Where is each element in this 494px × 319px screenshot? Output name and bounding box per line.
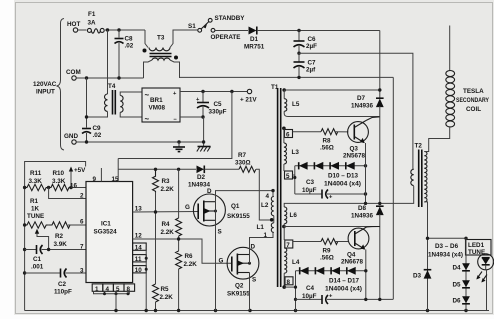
diodes D10-D13 1N4004 (x4) <box>295 162 367 188</box>
svg-text:C4: C4 <box>306 285 315 292</box>
wire L6 bottom to Q4 collector line <box>284 226 380 228</box>
svg-text:R7: R7 <box>238 152 247 159</box>
svg-text:D2: D2 <box>197 174 206 181</box>
svg-text:T2: T2 <box>415 143 423 150</box>
svg-text:8: 8 <box>287 279 291 286</box>
winding L5 <box>282 88 299 111</box>
capacitor C5 330uF <box>196 92 227 118</box>
svg-text:1: 1 <box>264 232 268 239</box>
wire pin13 to Q1 gate <box>133 210 199 213</box>
terminal GND <box>64 133 78 144</box>
svg-text:1N4934 (x4): 1N4934 (x4) <box>428 252 463 259</box>
svg-text:2µf: 2µf <box>306 67 316 74</box>
svg-text:Q1: Q1 <box>231 203 240 210</box>
svg-text:R8: R8 <box>323 138 332 145</box>
svg-text:D: D <box>207 188 212 195</box>
diode D6 <box>453 296 470 304</box>
svg-text:~: ~ <box>145 115 150 124</box>
resistor R9 .56ohm <box>293 239 349 262</box>
svg-text:G: G <box>185 204 190 211</box>
svg-text:S: S <box>252 277 256 284</box>
svg-text:1K: 1K <box>31 206 40 213</box>
wire Q3 emitter vertical <box>365 143 367 203</box>
svg-text:D7: D7 <box>357 95 366 102</box>
terminal COM <box>66 69 81 80</box>
transformer T2 core <box>415 143 423 208</box>
svg-text:S: S <box>218 229 222 236</box>
diode D2 1N4934 <box>188 166 239 189</box>
svg-text:T3: T3 <box>157 35 165 42</box>
svg-text:1N4004 (x4): 1N4004 (x4) <box>325 286 362 293</box>
resistor R3 2.2K <box>153 169 175 212</box>
diode D4 <box>453 238 470 310</box>
svg-text:L4: L4 <box>292 259 300 266</box>
ground chassis symbol <box>197 147 211 152</box>
svg-text:BR1: BR1 <box>150 97 163 104</box>
resistor R5 2.2K <box>153 212 174 311</box>
svg-text:C7: C7 <box>308 60 317 67</box>
wire BR1 - output <box>180 115 205 146</box>
svg-text:D3: D3 <box>413 273 422 280</box>
svg-text:Q4: Q4 <box>347 252 356 259</box>
terminal HOT <box>67 21 80 32</box>
resistor R2 3.9K <box>49 222 86 248</box>
wire GND line <box>76 140 203 143</box>
pin boxes 1 4 5 8 <box>92 284 134 293</box>
svg-text:D5: D5 <box>453 282 462 289</box>
terminal +21V <box>240 89 257 103</box>
transformer T4 <box>85 30 142 119</box>
svg-text:COM: COM <box>66 69 81 76</box>
svg-text:12: 12 <box>135 233 143 240</box>
svg-text:10µF: 10µF <box>302 293 317 300</box>
capacitor C2 110pF <box>25 269 86 296</box>
120VAC INPUT brace <box>33 19 64 151</box>
svg-text:11: 11 <box>135 256 142 263</box>
svg-text:10µF: 10µF <box>302 187 317 194</box>
svg-text:R3: R3 <box>162 178 171 185</box>
svg-text:L5: L5 <box>292 101 300 108</box>
transistor Q1 SK9155 <box>185 188 250 236</box>
diode D3 <box>413 270 431 280</box>
wire bottom pins strap to rail <box>94 291 130 310</box>
node 8 tap <box>284 271 297 311</box>
wire HOT to fuse <box>78 29 87 31</box>
svg-text:R1: R1 <box>30 198 39 205</box>
tesla secondary coil <box>446 26 490 127</box>
resistor R7 330ohm <box>235 152 256 172</box>
switch S1 STANDBY/OPERATE <box>188 15 245 41</box>
svg-text:HOT: HOT <box>67 21 80 28</box>
wire +21V drop to bias row <box>118 92 232 159</box>
resistor R6 2.2K <box>176 239 198 311</box>
svg-text:1N4936: 1N4936 <box>351 213 374 220</box>
svg-text:~: ~ <box>145 91 150 100</box>
wire pin12 to Q2 gate <box>133 237 232 263</box>
svg-text:L2: L2 <box>261 202 269 209</box>
svg-text:GND: GND <box>64 133 78 140</box>
svg-text:2: 2 <box>80 193 84 200</box>
svg-text:2.2K: 2.2K <box>160 294 174 301</box>
capacitor C4 10uF + bottom return line <box>296 285 394 304</box>
svg-text:D8: D8 <box>358 205 367 212</box>
svg-text:C6: C6 <box>308 36 317 43</box>
transistor Q4 2N6678 <box>341 227 380 266</box>
capacitor C1 .001 <box>25 245 86 271</box>
svg-text:7: 7 <box>286 242 290 249</box>
wire L5 top line to D1/D7 bus <box>284 88 381 91</box>
transistor Q3 2N5678 <box>343 117 380 160</box>
node 5 tap <box>285 166 297 194</box>
svg-text:STANDBY: STANDBY <box>215 15 246 22</box>
svg-text:3: 3 <box>80 268 84 275</box>
svg-text:L6: L6 <box>290 212 298 219</box>
svg-text:VM08: VM08 <box>149 105 166 112</box>
svg-text:2µF: 2µF <box>306 43 317 50</box>
svg-text:2.2K: 2.2K <box>161 229 175 236</box>
svg-text:SG3524: SG3524 <box>94 229 118 236</box>
transistor Q2 SK9155 <box>219 244 259 298</box>
svg-text:C8: C8 <box>125 36 134 43</box>
svg-text:9: 9 <box>93 176 97 183</box>
LED1 <box>478 254 494 311</box>
winding L1 <box>257 216 274 239</box>
diode D8 1N4936 <box>351 205 384 299</box>
T2 primary winding <box>411 169 414 185</box>
wire Q4 emitter vertical <box>365 250 367 300</box>
svg-text:SK9155: SK9155 <box>227 213 250 220</box>
svg-text:C2: C2 <box>58 281 67 288</box>
+5V arrow <box>69 167 86 188</box>
svg-text:R9: R9 <box>323 248 332 255</box>
svg-text:2N6678: 2N6678 <box>341 259 364 266</box>
diode D7 1N4936 <box>351 95 384 203</box>
winding L2 <box>261 193 274 216</box>
wire S1 to D1 <box>215 30 248 32</box>
svg-text:F1: F1 <box>88 11 96 18</box>
winding L6 <box>282 207 297 240</box>
svg-text:.56Ω: .56Ω <box>320 145 334 152</box>
wire Q1 source to rail <box>215 211 217 311</box>
svg-text:4: 4 <box>266 193 270 200</box>
resistor R8 .56ohm <box>293 129 349 152</box>
wire midpoint line to T2 primary bottom <box>284 186 414 207</box>
svg-text:4: 4 <box>106 286 110 293</box>
wire D3-D6 header line <box>426 237 468 259</box>
capacitor C8 .02 <box>115 30 134 78</box>
svg-text:SK9155: SK9155 <box>227 291 250 298</box>
svg-text:T4: T4 <box>108 83 116 90</box>
wire pins 14/11/10 to rail <box>145 247 148 311</box>
svg-text:TUNE: TUNE <box>27 213 44 220</box>
wire Q2 source to rail <box>249 273 251 311</box>
svg-text:1: 1 <box>95 286 99 293</box>
svg-text:TESLA: TESLA <box>463 88 484 95</box>
pin 15 stub <box>112 159 120 184</box>
svg-text:+5V: +5V <box>74 167 86 174</box>
svg-text:1N4004 (x4): 1N4004 (x4) <box>324 181 361 188</box>
svg-text:C3: C3 <box>306 179 315 186</box>
op-amp/IC U1 SG3524 <box>86 182 133 283</box>
wire pin2 to R10/R11 junction <box>49 188 86 199</box>
wire T2 secondary bottom down <box>424 202 427 311</box>
LED light arrows <box>476 272 487 283</box>
svg-text:2.2K: 2.2K <box>184 261 198 268</box>
resistor R11 3.3K <box>25 170 49 191</box>
svg-text:G: G <box>219 258 224 265</box>
wire C6/C7 midpoint to T2 primary top <box>299 53 413 169</box>
svg-text:R11: R11 <box>30 170 42 177</box>
svg-text:2.2K: 2.2K <box>161 186 175 193</box>
svg-text:C1: C1 <box>33 256 42 263</box>
capacitor C9 .02 <box>82 78 102 142</box>
svg-text:INPUT: INPUT <box>36 89 55 96</box>
svg-text:R5: R5 <box>161 286 170 293</box>
svg-text:.02: .02 <box>93 132 102 139</box>
svg-text:R4: R4 <box>162 221 171 228</box>
resistor R4 2.2K <box>161 169 182 239</box>
transformer T1 core <box>271 84 281 287</box>
wire T3 secondary right / C7 bottom feedback line <box>180 76 394 300</box>
T2 secondary winding <box>424 152 427 202</box>
wire R7 to T1 primary center tap <box>256 169 272 220</box>
svg-text:L1: L1 <box>257 224 265 231</box>
winding L3 <box>284 143 299 171</box>
resistor R10 3.3K <box>47 170 86 191</box>
svg-text:D4: D4 <box>453 265 462 272</box>
svg-text:R6: R6 <box>185 253 194 260</box>
svg-text:6: 6 <box>80 219 84 226</box>
node 6 tap <box>282 127 292 144</box>
diodes D14-D17 1N4004 (x4) <box>296 267 368 293</box>
svg-text:330µF: 330µF <box>209 109 227 116</box>
svg-text:15: 15 <box>112 176 120 183</box>
svg-text:5: 5 <box>286 173 290 180</box>
svg-text:MR751: MR751 <box>244 44 265 51</box>
svg-text:10: 10 <box>135 267 143 274</box>
svg-text:LED1: LED1 <box>468 242 485 249</box>
wire Q1 drain to L2 <box>216 189 275 202</box>
wire D1 to right corner, drop to L5 top line <box>257 29 380 98</box>
svg-text:C9: C9 <box>93 125 102 132</box>
svg-text:120VAC: 120VAC <box>33 81 57 88</box>
svg-text:110pF: 110pF <box>54 289 72 296</box>
svg-text:D10 – D13: D10 – D13 <box>328 173 358 180</box>
svg-text:D: D <box>251 244 256 251</box>
svg-text:R2: R2 <box>55 233 64 240</box>
capacitor C7 2uF <box>294 52 317 78</box>
wire bias row (row3) <box>118 168 196 171</box>
svg-text:5: 5 <box>116 286 120 293</box>
wire L5 bottom to Q3 collector line <box>284 111 380 116</box>
bridge rectifier BR1 VM08 <box>142 88 180 124</box>
svg-text:6: 6 <box>286 132 290 139</box>
svg-text:D3 – D6: D3 – D6 <box>435 243 459 250</box>
winding L4 <box>282 248 299 289</box>
svg-text:D1: D1 <box>250 36 259 43</box>
wire fuse to T3, junction dots at T4 and C8 drops <box>105 28 145 31</box>
svg-text:2N5678: 2N5678 <box>343 153 366 160</box>
svg-text:330Ω: 330Ω <box>235 160 251 167</box>
transformer T3 <box>143 30 198 78</box>
svg-text:Q2: Q2 <box>235 283 244 290</box>
svg-text:.02: .02 <box>125 43 134 50</box>
svg-text:Q3: Q3 <box>350 146 359 153</box>
svg-text:D6: D6 <box>453 298 462 305</box>
svg-text:COIL: COIL <box>466 106 481 113</box>
svg-text:8: 8 <box>127 286 131 293</box>
capacitor C6 2uF <box>294 31 318 54</box>
svg-text:16: 16 <box>70 183 78 190</box>
potentiometer R1 1K TUNE <box>25 198 49 250</box>
svg-text:D14 – D17: D14 – D17 <box>329 278 359 285</box>
ground earth symbol <box>173 142 185 152</box>
capacitor C3 10uF <box>295 179 367 201</box>
diode D5 <box>453 280 470 288</box>
svg-text:R10: R10 <box>53 170 65 177</box>
bottom rail <box>25 309 489 312</box>
svg-text:SECONDARY: SECONDARY <box>456 97 490 104</box>
svg-text:+ 21V: + 21V <box>240 97 257 104</box>
svg-text:C5: C5 <box>214 101 223 108</box>
wire BR1 + output to +21V <box>180 90 247 93</box>
svg-text:OPERATE: OPERATE <box>211 34 241 41</box>
pin boxes 14 11 10 <box>133 243 147 274</box>
wire left +5V rail <box>23 162 86 311</box>
wire T2 secondary top to tesla coil <box>424 128 449 152</box>
svg-text:IC1: IC1 <box>101 221 111 228</box>
svg-text:7: 7 <box>80 244 84 251</box>
svg-text:14: 14 <box>135 245 143 252</box>
svg-text:L3: L3 <box>292 149 300 156</box>
svg-text:S1: S1 <box>188 23 196 30</box>
pin 9 stub <box>93 168 102 183</box>
wire COM line <box>76 76 143 79</box>
svg-text:1N4936: 1N4936 <box>351 103 374 110</box>
svg-text:3A: 3A <box>88 20 97 27</box>
node 7 tap <box>285 240 293 249</box>
svg-text:.56Ω: .56Ω <box>320 255 334 262</box>
fuse F1 3A <box>87 11 104 33</box>
LED1 TUNE box <box>466 240 492 257</box>
svg-text:.001: .001 <box>31 264 44 271</box>
diode D1 MR751 <box>244 27 265 51</box>
svg-text:3.9K: 3.9K <box>54 241 68 248</box>
wire L1 bottom to Q2 drain <box>250 233 274 255</box>
